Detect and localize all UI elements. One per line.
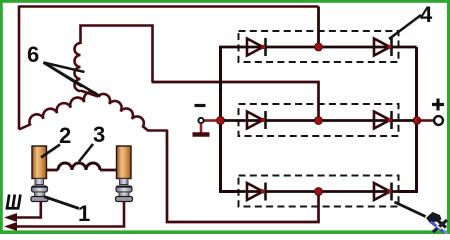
minus sign label (195, 104, 206, 107)
slip-ring terminal under right brush (116, 179, 133, 202)
diode VD5 (row 3 left) (247, 183, 266, 201)
junction dot row1 centre (315, 43, 323, 51)
pointer 5 to diode VD6 (395, 202, 426, 217)
arrow head bottom output (4, 222, 17, 231)
wire: middle row bus (221, 119, 417, 122)
brush 2 left body (32, 146, 47, 179)
wire: bottom row bus (221, 190, 417, 193)
pointer 3 to field coil (79, 144, 93, 162)
svg-text:4: 4 (420, 2, 433, 27)
wire: negative rail vertical (top row left end down to bottom row left end) (221, 47, 239, 192)
wire: phase C down, across, up to bottom-row centre junction (167, 130, 319, 223)
diode VD4 (row 2 right) (374, 111, 392, 129)
plus sign label (432, 99, 444, 111)
wire: right brush terminal down (long bottom run) (16, 201, 124, 227)
rectifier row 2 dashed housing (239, 104, 399, 136)
wire: drop from top frame to top diode-row centre junction (317, 7, 320, 48)
pointer 6 to star point (44, 63, 101, 97)
wire: minus terminal to negative-rail junction (202, 119, 217, 122)
wire: positive-rail junction to plus terminal (417, 119, 433, 122)
stator coil 6b (left slope winding) (19, 92, 98, 130)
junction dot negative rail (217, 117, 225, 125)
plus terminal circle (434, 116, 443, 125)
junction dot row3 centre (315, 188, 323, 196)
svg-text:6: 6 (27, 42, 39, 67)
wire: left frame vertical down to stator winding left end (18, 6, 21, 130)
wire: phase A tap, coil top up and over (81, 26, 153, 83)
rectifier row 1 dashed housing (239, 31, 399, 62)
wire: left brush terminal down (16, 201, 41, 218)
pointer 1 to slip-ring terminal (44, 197, 79, 209)
diode VD3 (row 2 left) (247, 111, 266, 129)
stator coil 6a (vertical phase winding) (75, 43, 81, 91)
label Ш (field terminal) (6, 195, 21, 209)
field coil 3 lead right (100, 169, 117, 172)
wire: top row bus (219, 46, 417, 49)
brush right body (117, 146, 132, 179)
pointer 2 to left brush (41, 145, 60, 158)
ground bar (193, 132, 210, 137)
wire: phase A horizontal to middle-row centre junction (152, 82, 319, 121)
wire: positive rail vertical (right ends of all rows) (399, 47, 417, 192)
wire: coil 6a to star point (81, 91, 99, 97)
diode VD2 (row 1 right) (374, 38, 392, 56)
minus terminal circle (198, 118, 203, 123)
junction dot row2 centre (315, 117, 323, 125)
diode VD6 (row 3 right) (374, 183, 392, 201)
field coil 3 (58, 163, 100, 170)
rectifier row 3 dashed housing (239, 176, 399, 207)
pointer 4 to diode VD2 (389, 15, 421, 39)
svg-text:3: 3 (93, 122, 105, 147)
arrow head Ш output (4, 213, 17, 222)
ground stem (200, 124, 203, 134)
stator coil 6c (right slope winding) (98, 94, 167, 131)
pointer 6 to coil lower bump (44, 63, 83, 87)
wire: top frame horizontal from left frame to top-row centre tap (19, 5, 319, 8)
watermark tools icon (426, 212, 448, 234)
svg-text:1: 1 (78, 201, 90, 226)
pointer 6 to coil 6a (44, 63, 85, 73)
diode VD1 (row 1 left) (247, 38, 266, 56)
field coil 3 lead left (46, 169, 58, 172)
junction dot positive rail (413, 117, 421, 125)
slip-ring terminal under left brush (31, 179, 48, 202)
svg-text:2: 2 (59, 123, 71, 148)
